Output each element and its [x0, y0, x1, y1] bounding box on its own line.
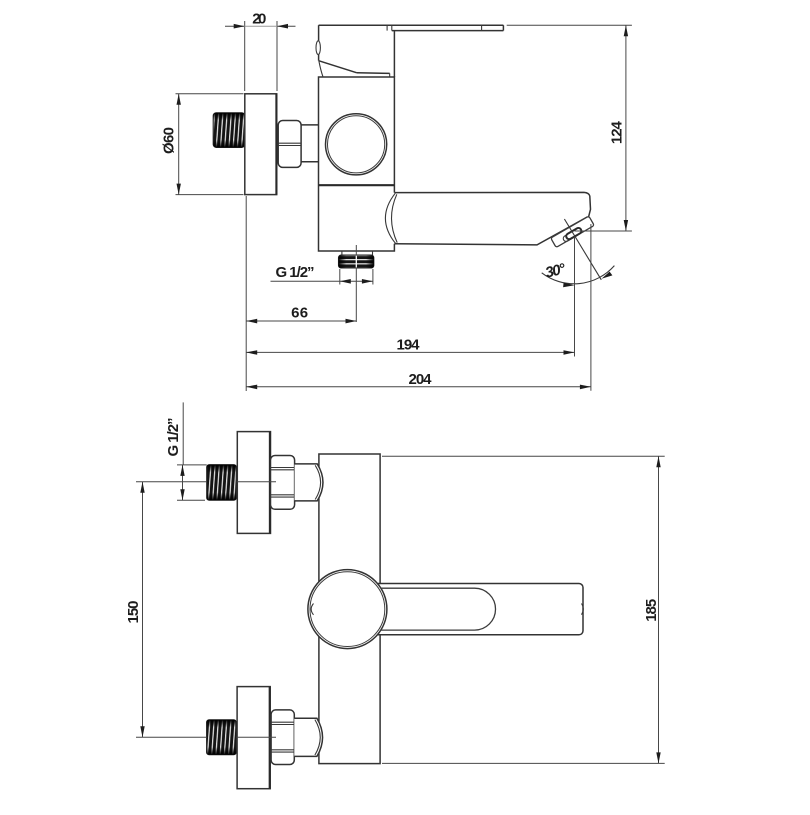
cartridge cover inner circle	[328, 116, 385, 173]
wall escutcheon plate (side view)	[245, 94, 277, 195]
lever bar tick	[481, 25, 483, 30]
lever bar end	[502, 25, 504, 30]
svg-text:G 1/2”: G 1/2”	[276, 264, 315, 281]
handle underside slant	[319, 61, 357, 73]
aerator slot thin outline (offset)	[562, 229, 579, 242]
union hex nut (side view)	[278, 121, 301, 168]
handle notch ticks	[386, 25, 388, 30]
connector cylinder to body	[301, 124, 319, 126]
svg-text:Ø60: Ø60	[161, 127, 178, 154]
outlet centerline upper	[355, 245, 357, 255]
handle left edge	[318, 25, 320, 61]
dimension 150: dimension line	[142, 482, 144, 738]
lower connection centerline left	[136, 736, 207, 738]
dimension D60: extension line top	[176, 93, 244, 95]
dimension D60: extension line bottom	[176, 194, 244, 196]
wall plate right edge (thick)	[275, 94, 277, 195]
dimension D60: dimension line	[178, 94, 180, 195]
lower union hex nut (front)	[271, 710, 294, 765]
dimension 20: right tail and arrow	[278, 25, 296, 27]
spout bottom edge and slant	[394, 217, 587, 245]
knob left highlight arc	[311, 604, 313, 615]
spout (white fill body)	[393, 192, 590, 245]
lever inner stadium outline	[381, 588, 496, 630]
G1/2 arrows (pointing outward)	[340, 279, 351, 284]
dimension 66: dimension line	[246, 320, 356, 322]
spout-body fillet arc inner	[391, 194, 397, 242]
dimension 204: dimension line	[246, 386, 591, 388]
G1/2 leader line (vertical)	[182, 402, 184, 465]
handle small tick to body	[389, 73, 391, 76]
dimension 20: left tail and arrow	[225, 25, 244, 27]
thread diameter extension lines	[177, 464, 207, 466]
lower connection centerline right	[236, 736, 276, 738]
G1/2 label leader line	[271, 280, 373, 282]
svg-text:G 1/2”: G 1/2”	[165, 418, 182, 457]
dimension 20: extension line left	[244, 21, 246, 91]
handle knob circle (front)	[308, 570, 387, 649]
handle indicator ellipse	[316, 41, 320, 55]
dimension 124: top extension line	[507, 24, 632, 26]
lower plate right edge (thick)	[269, 687, 271, 789]
aerator housing (rotated)	[551, 216, 595, 247]
dimension 194: dimension line	[246, 351, 574, 353]
hex nut facet lines	[278, 142, 301, 144]
dimension 20: extension line right	[276, 21, 278, 91]
svg-text:204: 204	[409, 371, 433, 388]
svg-text:185: 185	[643, 599, 660, 622]
lever end cap arc	[582, 604, 584, 615]
aerator slot (bold)	[565, 227, 582, 240]
upper nut facet lines	[271, 467, 295, 469]
upper connection centerline right	[237, 481, 277, 483]
handle lower-left corner curve	[319, 61, 323, 77]
G1/2 extension lines below thread	[339, 269, 341, 285]
upper wall thread (front)	[207, 465, 237, 501]
lower nut facet lines	[271, 721, 294, 723]
lower ball joint (white fill)	[294, 718, 322, 756]
spout-body fillet arc outer	[385, 193, 395, 243]
upper escutcheon plate (front)	[237, 432, 270, 534]
lower ball joint outline	[294, 718, 322, 756]
threaded tail S-union (wall side)	[213, 113, 245, 148]
aerator center extension line (vertical)	[574, 237, 576, 357]
svg-text:150: 150	[125, 601, 142, 624]
dimension 124: bottom extension line	[575, 230, 632, 232]
svg-text:194: 194	[397, 336, 421, 353]
svg-text:20: 20	[252, 11, 266, 28]
upper ball joint inner arc	[315, 465, 320, 499]
handle knob inner circle	[310, 572, 385, 647]
dimension 185: extension line top	[382, 455, 665, 457]
lower escutcheon plate (front)	[237, 687, 270, 789]
dimension 185: dimension line	[658, 456, 660, 763]
dimension 20: line between extensions	[245, 25, 277, 27]
lower wall thread (front)	[207, 720, 237, 755]
cartridge cover circle	[326, 114, 387, 175]
upper ball joint outline	[295, 464, 323, 501]
shower outlet thread (G 1/2)	[339, 255, 374, 268]
faucet body (side view)	[319, 77, 395, 251]
upper union hex nut (front)	[271, 456, 295, 510]
dimension 124: dimension line	[625, 25, 627, 231]
lever bar bottom	[392, 30, 504, 32]
outlet centerline lower	[355, 268, 357, 322]
cartridge cap right edge	[393, 31, 395, 77]
upper ball joint (white fill)	[295, 464, 323, 501]
spout top edge and nose	[394, 192, 590, 217]
handle underside horizontal	[357, 72, 390, 75]
30 deg angle arc	[542, 266, 615, 284]
upper connection centerline left	[136, 481, 207, 483]
thread diameter dimension line and arrows	[182, 465, 184, 500]
30 deg arc arrow right	[602, 272, 613, 279]
flow direction line (30 deg)	[564, 219, 601, 280]
shower outlet neck lines	[341, 251, 343, 255]
svg-text:66: 66	[291, 305, 308, 322]
faucet body (front view)	[319, 454, 380, 764]
wall reference extension line (below plate)	[245, 196, 247, 391]
30 deg arc arrow left	[563, 283, 574, 288]
spout tip extension line (vertical)	[590, 224, 592, 391]
upper plate right edge (thick)	[269, 432, 271, 534]
outlet centerline white slit across thread	[355, 256, 357, 268]
handle top line and lever bar top	[319, 24, 504, 26]
dimension 185: extension line bottom	[382, 762, 665, 764]
body joint line (thick)	[319, 184, 395, 186]
handle lever (front view, white fill)	[346, 584, 583, 635]
lower ball joint inner arc	[315, 720, 320, 755]
svg-text:124: 124	[609, 120, 626, 144]
